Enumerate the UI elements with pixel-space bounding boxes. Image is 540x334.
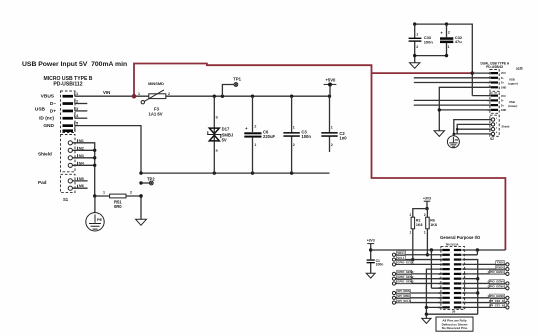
test point TP2 (139, 177, 155, 185)
svg-text:1K8: 1K8 (416, 223, 423, 227)
svg-text:220uF: 220uF (263, 134, 276, 139)
svg-text:2: 2 (424, 213, 426, 217)
svg-text:GPIO_GEN6: GPIO_GEN6 (488, 294, 505, 298)
svg-text:2: 2 (448, 30, 450, 34)
svg-text:5V: 5V (222, 137, 227, 142)
svg-text:GPIO_GCLK: GPIO_GCLK (397, 261, 413, 265)
svg-text:1: 1 (416, 32, 418, 36)
wire D+ stub pin3 (75, 110, 87, 112)
connector X1 left pin names (35, 94, 56, 129)
svg-text:100n: 100n (376, 263, 384, 267)
svg-text:D–: D– (50, 101, 56, 107)
svg-text:+5V0: +5V0 (325, 77, 336, 82)
net port SCL1 (392, 256, 442, 261)
svg-text:Shield: Shield (38, 151, 52, 156)
wire pad stubs (72, 181, 87, 188)
net port SPI_MISO (392, 294, 442, 299)
svg-text:D+: D+ (501, 104, 505, 107)
wire 5V0 pins 2-4 (462, 248, 505, 255)
svg-text:1A1 6V: 1A1 6V (149, 112, 163, 117)
svg-text:+3V3: +3V3 (367, 239, 375, 243)
title: USB Power Input (22, 61, 127, 68)
connector X2 label DUAL USB TYPE A (480, 61, 523, 71)
net port GPIO_GEN3 (392, 280, 442, 285)
TVS diode D17 SMBJ 5V (207, 96, 234, 173)
resistor R6 1K8 (424, 213, 437, 256)
wire 3V3 bus pin1-pin17 (431, 250, 442, 288)
capacitor C3 100n (283, 96, 311, 173)
power +3V3 symbol (left, decoupling) (367, 239, 375, 250)
svg-text:5: 5 (76, 121, 79, 126)
test point TP1 (222, 76, 241, 96)
wire upper GND (439, 87, 490, 131)
connector X1 pins 1-5 (63, 91, 80, 132)
svg-text:100n: 100n (424, 39, 434, 44)
net port GPIO_GEN2 (392, 275, 442, 280)
svg-text:PE: PE (455, 138, 459, 142)
svg-text:USB: USB (35, 106, 46, 112)
svg-text:S2: S2 (490, 137, 494, 141)
svg-text:2: 2 (496, 123, 498, 125)
wire lower GND (438, 108, 491, 111)
ground GND triangle (left) (136, 194, 147, 225)
wire lower D- (414, 99, 491, 101)
svg-text:No Reserved Pins: No Reserved Pins (442, 326, 468, 330)
svg-text:2: 2 (254, 125, 256, 129)
connector X2 shield pins (491, 118, 509, 136)
svg-text:TP1: TP1 (233, 76, 241, 81)
svg-text:1K8: 1K8 (430, 223, 437, 227)
wire upper D+ (414, 82, 491, 84)
wire upper VCC stub (472, 72, 490, 74)
ground PE symbol (USB shield) (447, 136, 459, 148)
wire D- stub pin2 (75, 103, 87, 105)
svg-text:0R0: 0R0 (114, 204, 122, 209)
svg-text:2: 2 (331, 143, 333, 147)
svg-text:4: 4 (496, 131, 498, 134)
svg-text:GPIO_GEN3: GPIO_GEN3 (397, 280, 414, 284)
svg-text:D+: D+ (501, 82, 505, 85)
svg-text:PD-USB/112: PD-USB/112 (53, 81, 82, 87)
svg-text:1: 1 (331, 126, 333, 130)
svg-text:RXD0: RXD0 (496, 265, 504, 269)
svg-text:PD-USB/4X: PD-USB/4X (486, 65, 504, 69)
connector X1 micro USB body (dashed boxes) (61, 91, 76, 202)
svg-text:2: 2 (410, 213, 412, 217)
ground triangle (3V3 cap) (366, 273, 375, 278)
wire ID stub pin4 (75, 117, 87, 119)
wire lower D+ (414, 104, 491, 106)
svg-text:1: 1 (424, 231, 426, 235)
svg-text:SPI_CE1_N: SPI_CE1_N (489, 304, 504, 308)
wire GND bus (139, 171, 329, 174)
svg-text:VCC: VCC (501, 95, 506, 98)
power +3V3 symbol (pull-ups) (423, 197, 431, 211)
wire GND right bus pins 6,14,20 (462, 260, 479, 315)
capacitor C6 220uF (244, 96, 275, 173)
net port SDA1 (392, 251, 442, 256)
svg-text:+: + (440, 30, 443, 35)
svg-text:(lower): (lower) (508, 104, 517, 108)
svg-text:1: 1 (448, 45, 450, 49)
svg-text:VBUS: VBUS (41, 94, 55, 100)
svg-text:1: 1 (254, 143, 256, 147)
net port GPIO_GEN5 (462, 284, 509, 289)
header P1 General Purpose I/O (440, 235, 481, 314)
svg-text:1n0: 1n0 (339, 135, 347, 140)
fuse F3 MINSMD 1A1 6V (138, 81, 170, 116)
svg-text:GPIO_GEN1: GPIO_GEN1 (488, 270, 505, 274)
svg-text:GPIO_GEN4: GPIO_GEN4 (488, 280, 505, 284)
svg-text:2: 2 (416, 45, 418, 49)
wire shield bus to PE (453, 120, 492, 136)
wire VIN: pin1 to fuse (75, 90, 149, 96)
wire GND: pin5 right and down (75, 126, 141, 174)
net port SPI_MOSI (392, 289, 442, 294)
resistor R2 1K8 (410, 213, 423, 261)
svg-text:1: 1 (76, 91, 79, 96)
svg-text:Shield: Shield (502, 125, 510, 129)
svg-text:GPIO_GEN5: GPIO_GEN5 (488, 284, 505, 288)
svg-text:RH PF: RH PF (516, 69, 523, 71)
net port SPI_SCLK (392, 299, 442, 304)
svg-text:MINSMD: MINSMD (148, 81, 164, 86)
svg-text:2: 2 (76, 99, 79, 104)
note box: All Pins are Fully Defined (436, 317, 473, 331)
svg-text:Pad: Pad (38, 180, 47, 185)
svg-text:D17: D17 (222, 127, 230, 132)
svg-text:a: a (216, 149, 219, 153)
svg-text:SPI_MISO: SPI_MISO (397, 294, 411, 298)
svg-text:D–: D– (501, 100, 505, 103)
wire USB VCC top (413, 22, 474, 95)
svg-text:GND: GND (501, 86, 507, 89)
power +5V0 symbol (324, 77, 337, 96)
svg-text:100n: 100n (301, 134, 311, 139)
wire shield bus M1-M4 (72, 143, 96, 196)
connector X2 lower USB pins (488, 95, 518, 113)
ground triangle (USB ports) (434, 131, 444, 137)
svg-text:3: 3 (496, 127, 498, 129)
net port GPIO_GEN4 (462, 280, 509, 285)
svg-text:USB Power Input 5V 700mA min: USB Power Input 5V 700mA min (22, 61, 127, 68)
svg-text:4: 4 (76, 113, 79, 118)
svg-text:2: 2 (130, 191, 132, 195)
svg-text:VCC: VCC (501, 72, 506, 75)
connector X1 label MICRO USB TYPE B (44, 76, 93, 87)
svg-text:GPIO_GEN0: GPIO_GEN0 (397, 270, 414, 274)
highlighted red wire +5V net (132, 64, 506, 251)
net port RXD0 (462, 265, 509, 270)
net port TXD0 (462, 261, 509, 266)
svg-text:1: 1 (410, 231, 412, 235)
net port GPIO_GCLK (392, 261, 442, 266)
svg-text:(upper): (upper) (508, 81, 518, 85)
svg-text:ID (nc): ID (nc) (39, 116, 54, 122)
connector X1 pad pins M5-M6 (38, 177, 84, 190)
svg-text:1: 1 (293, 126, 295, 130)
net port SPI_CE0_N (462, 299, 509, 304)
svg-text:47u: 47u (455, 39, 462, 44)
svg-text:GND: GND (43, 123, 54, 129)
capacitor C33 100n (409, 24, 434, 55)
ground triangle (top right) (410, 63, 420, 69)
svg-text:2: 2 (168, 92, 170, 96)
connector X2 body dashed boxes (490, 70, 499, 142)
connector X1 shield pins M1-M4 (38, 139, 84, 168)
capacitor C1 100n (3V3 decoupling) (367, 248, 384, 273)
wire lower VCC (472, 95, 490, 97)
svg-text:SCL1: SCL1 (397, 256, 405, 260)
svg-text:PE: PE (97, 218, 103, 222)
svg-text:+: + (245, 126, 248, 131)
svg-text:1: 1 (138, 92, 140, 96)
capacitor C2 1n0 (321, 96, 347, 152)
svg-text:SPI_SCLK: SPI_SCLK (397, 299, 411, 303)
capacitor C32 47u (440, 24, 463, 55)
wire VIN after fuse to +5V0 node (166, 95, 331, 98)
svg-text:TXD0: TXD0 (497, 261, 505, 265)
svg-text:SPI_CE0_N: SPI_CE0_N (489, 299, 504, 303)
svg-text:b: b (216, 116, 219, 120)
wire upper D- (414, 77, 491, 79)
svg-text:2: 2 (293, 143, 295, 147)
wire GND left bus pin9-pin25 (425, 269, 478, 316)
header P1 pin boxes (439, 248, 467, 309)
svg-text:1: 1 (496, 118, 498, 120)
resistor R51 0R0 (93, 191, 143, 209)
svg-text:TP2: TP2 (147, 177, 155, 182)
wire 3V3 to pin1 (371, 248, 443, 251)
net port GPIO_GEN0 (392, 270, 442, 275)
svg-text:3: 3 (76, 106, 79, 111)
ground PE symbol (86, 196, 104, 231)
wire caps bottom + ground (413, 54, 448, 63)
svg-text:D+: D+ (50, 108, 56, 114)
net port GPIO_GEN1 (462, 270, 509, 275)
svg-text:PN-2X13A: PN-2X13A (446, 242, 459, 246)
svg-text:VIN: VIN (103, 90, 110, 95)
svg-text:SPI_MOSI: SPI_MOSI (397, 289, 410, 293)
svg-text:S1: S1 (63, 197, 69, 202)
wire pull-up feed (413, 209, 428, 218)
svg-text:26: 26 (452, 310, 456, 314)
svg-text:+3V3: +3V3 (423, 197, 431, 201)
svg-text:D–: D– (501, 77, 505, 80)
svg-text:SDA1: SDA1 (397, 251, 405, 255)
svg-text:GPIO_GEN2: GPIO_GEN2 (397, 275, 414, 279)
svg-text:General Purpose I/O: General Purpose I/O (440, 235, 481, 240)
connector X2 upper USB pins (488, 72, 518, 89)
svg-text:GND: GND (501, 109, 507, 112)
ground triangle (GPIO) (422, 314, 431, 323)
net port GPIO_GEN6 (462, 294, 509, 299)
svg-text:1: 1 (103, 191, 105, 195)
net port SPI_CE1_N (462, 304, 509, 309)
